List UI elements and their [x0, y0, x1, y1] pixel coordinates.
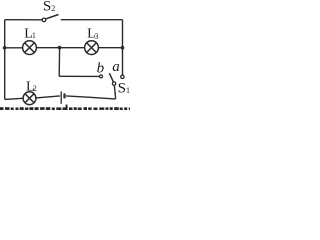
- wire: below S1 down to bottom-right corner: [114, 85, 115, 99]
- wire: left edge vertical: [4, 20, 6, 100]
- label L2: [26, 80, 37, 95]
- switch S2 pivot contact: [42, 18, 46, 22]
- wire: bottom row, right corner to battery: [66, 96, 115, 99]
- switch S1 lower contact circle: [112, 82, 115, 85]
- node b contact circle: [100, 75, 103, 78]
- battery: short thick plate (negative): [63, 93, 65, 98]
- svg-text:3: 3: [95, 32, 99, 41]
- battery: long plate (positive): [60, 91, 62, 104]
- wire: middle row, L3 to right edge: [98, 47, 122, 49]
- node: junction dot where branch leaves middle row: [58, 46, 62, 50]
- svg-text:1: 1: [32, 31, 36, 40]
- wire: top-right segment from switch S2 to right corner: [61, 19, 123, 21]
- wire: right edge vertical down to node a: [122, 20, 124, 75]
- svg-text:S: S: [118, 81, 126, 97]
- svg-text:2: 2: [51, 4, 55, 13]
- svg-text:a: a: [112, 59, 120, 75]
- lamp L3: [85, 41, 99, 55]
- svg-text:S: S: [43, 0, 51, 15]
- lamp L1: [23, 41, 37, 55]
- lamp L2: [23, 92, 36, 105]
- node a contact circle: [121, 75, 124, 78]
- wire: middle row, L1 to junction: [36, 47, 59, 49]
- wire: branch from junction down then right to node b: [59, 48, 99, 77]
- svg-text:1: 1: [126, 86, 130, 95]
- label S2: [43, 0, 55, 15]
- wire: bottom row, battery to lamp L2: [36, 96, 60, 98]
- wire: bottom row, lamp L2 to left corner: [5, 98, 23, 99]
- label S1: [118, 81, 130, 97]
- svg-text:2: 2: [33, 84, 37, 93]
- switch S1 lever (open): [109, 73, 113, 82]
- node: junction dot at left edge / middle row: [3, 46, 7, 50]
- label L3: [87, 27, 98, 42]
- label L1: [24, 27, 36, 42]
- cropped text artifact band at bottom edge: [0, 105, 130, 110]
- wire: middle row, left edge to lamp L1: [5, 47, 23, 49]
- svg-text:b: b: [97, 60, 105, 76]
- wire: middle row, junction to lamp L3: [60, 47, 85, 49]
- wire: top-left segment from left corner to switch S2: [5, 19, 43, 21]
- switch S2 lever (open): [46, 15, 59, 19]
- node: junction dot at right edge / middle row: [121, 46, 125, 50]
